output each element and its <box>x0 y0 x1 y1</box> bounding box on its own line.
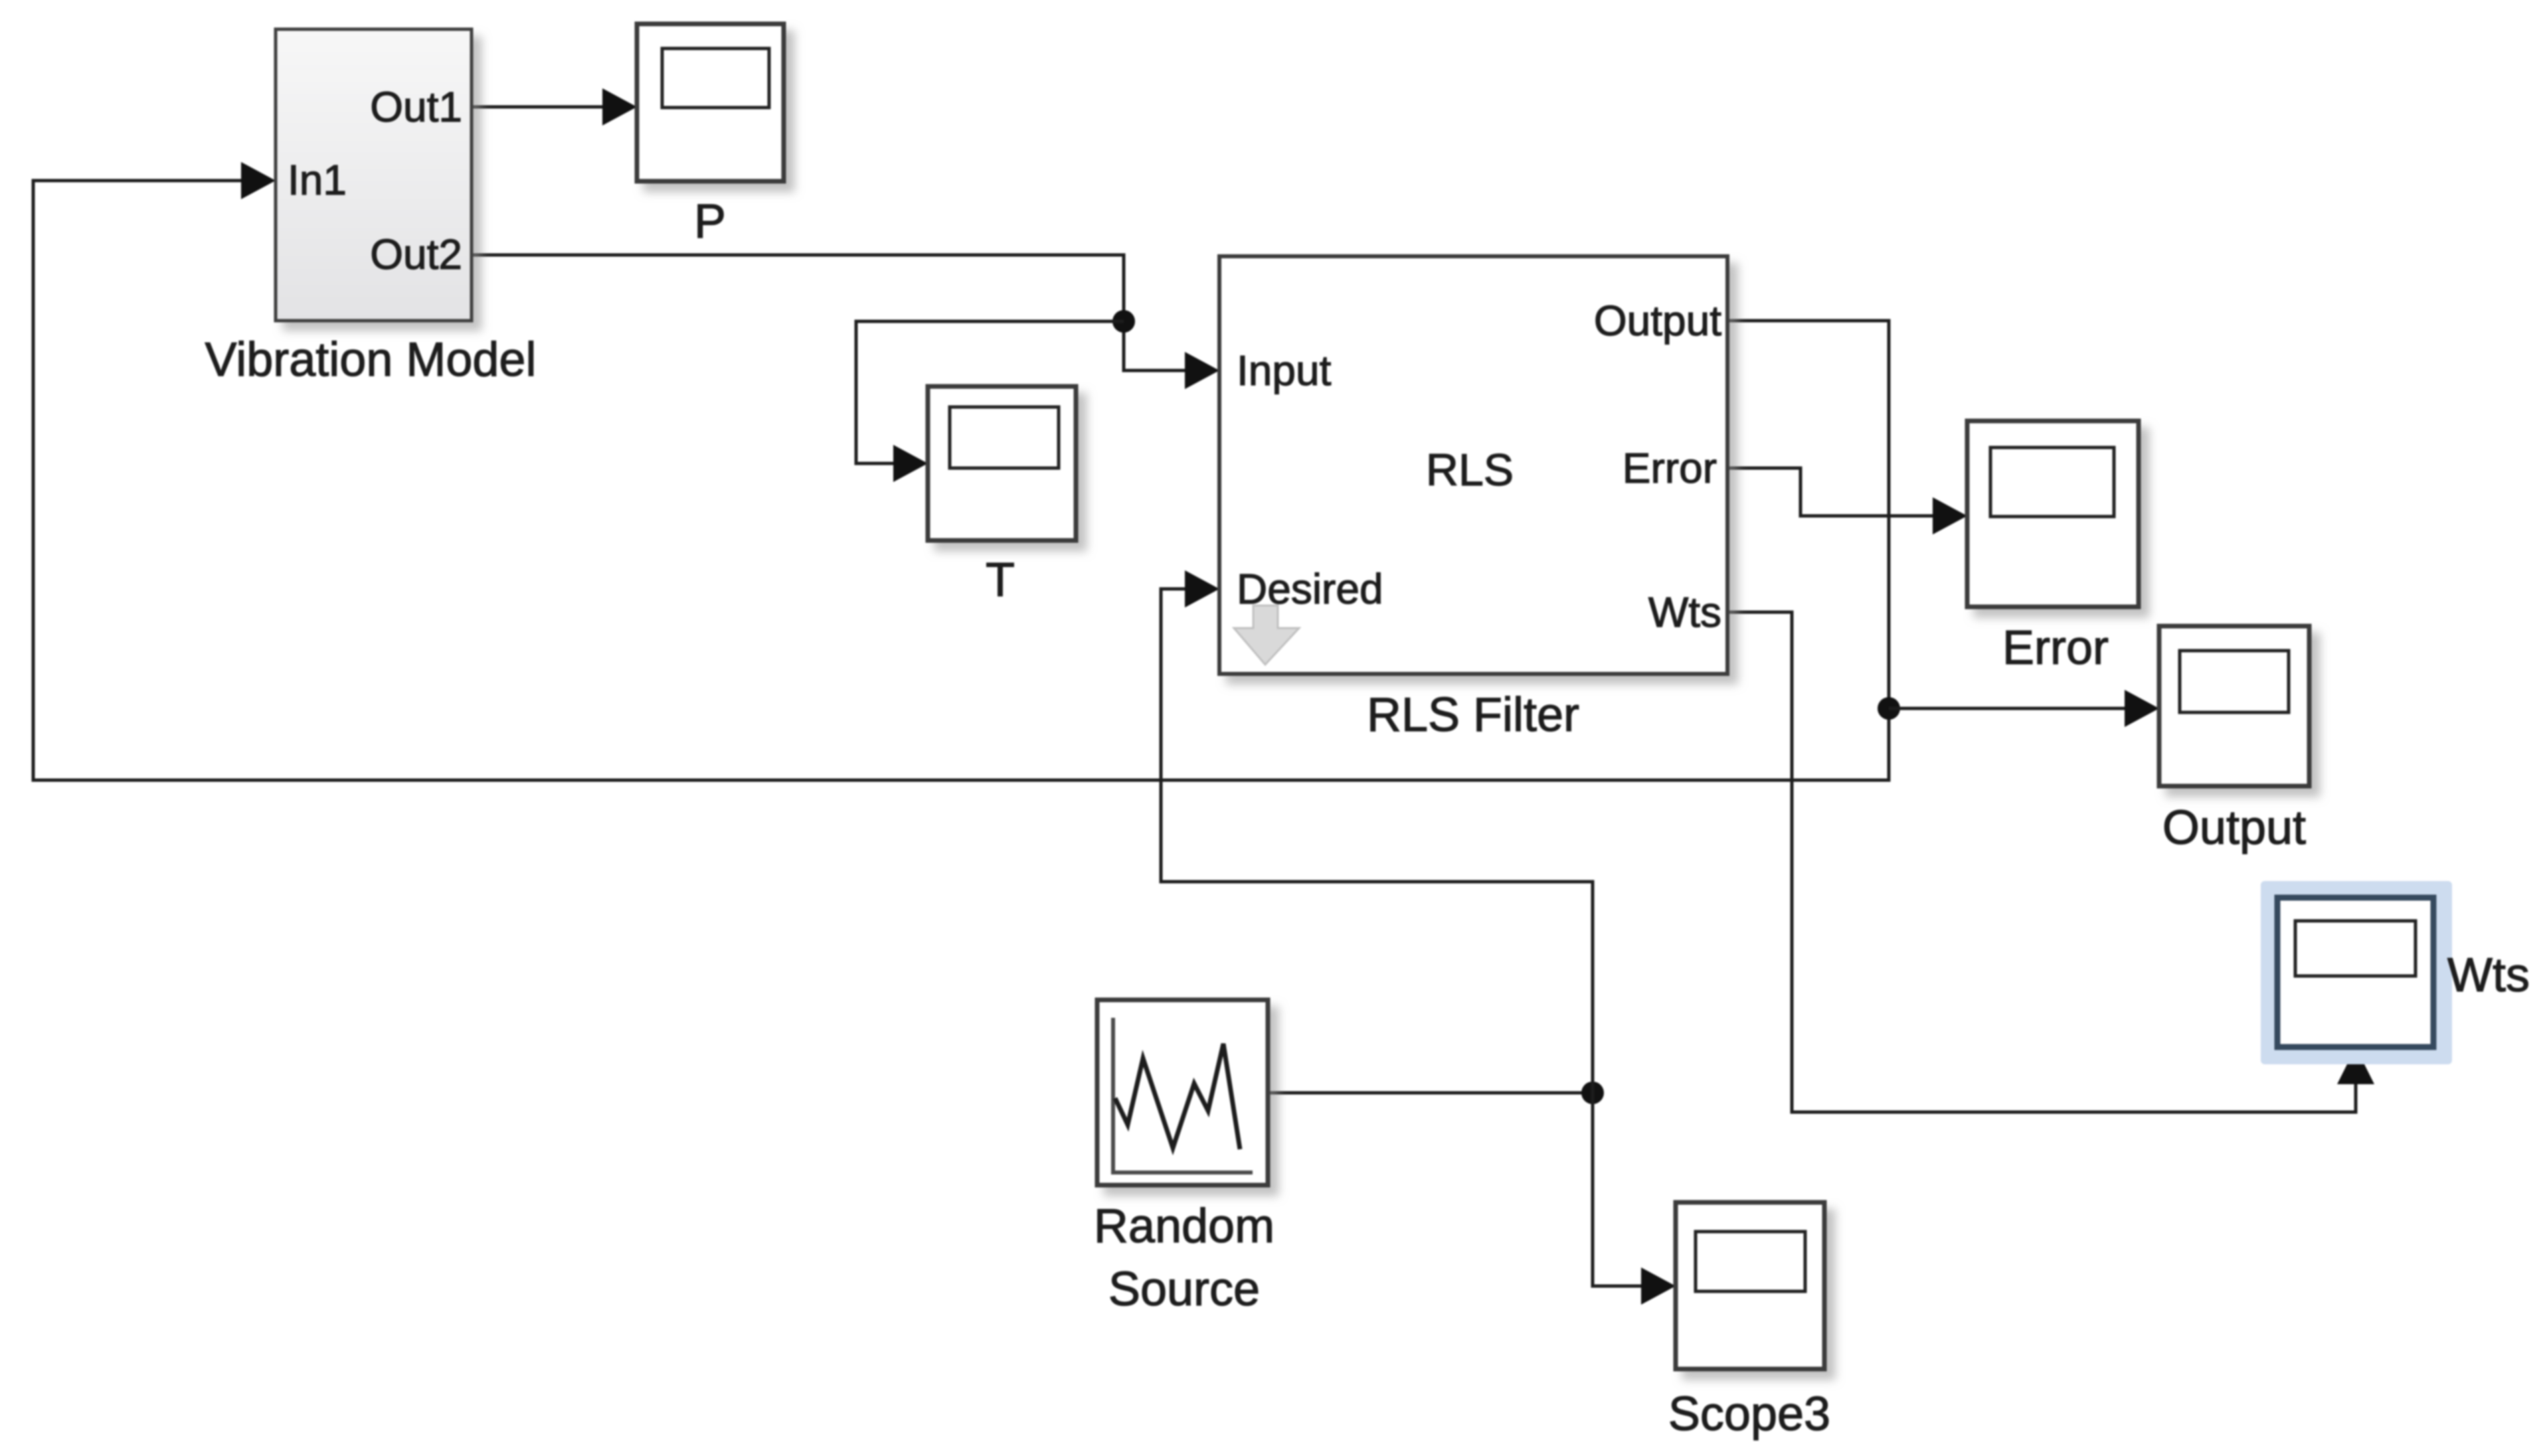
scope Scope3 <box>1676 1202 1824 1369</box>
arrowhead into Error scope <box>1933 497 1967 534</box>
svg-text:Random: Random <box>1094 1200 1274 1253</box>
svg-text:RLS Filter: RLS Filter <box>1367 688 1579 742</box>
svg-text:Source: Source <box>1108 1263 1260 1316</box>
arrowhead into Output scope <box>2125 690 2159 727</box>
icon axes <box>1113 1018 1253 1173</box>
wire Out1 to P scope <box>470 106 630 109</box>
wire branch to RLS Desired <box>1161 589 1593 1093</box>
svg-text:Error: Error <box>1623 444 1717 492</box>
svg-text:Wts: Wts <box>2447 949 2530 1002</box>
arrowhead into Wts scope (pointing up) <box>2337 1047 2374 1084</box>
svg-text:Error: Error <box>2002 621 2109 675</box>
svg-text:T: T <box>986 554 1015 607</box>
icon noise waveform <box>1115 1044 1240 1149</box>
gray update arrow icon <box>1234 606 1299 665</box>
wire branch to Output scope <box>1889 707 2152 710</box>
svg-text:Wts: Wts <box>1648 588 1721 636</box>
arrowhead into In1 <box>241 162 276 199</box>
arrowhead into T scope <box>893 445 928 482</box>
svg-text:Out2: Out2 <box>370 230 462 278</box>
scope Output <box>2159 626 2309 786</box>
scope P <box>637 24 784 181</box>
scope Error screen <box>1990 447 2114 517</box>
scope T screen <box>950 407 1059 468</box>
block Random Source <box>1097 1000 1268 1185</box>
scope T <box>928 386 1076 540</box>
svg-text:Vibration Model: Vibration Model <box>205 333 537 386</box>
arrowhead into Scope3 <box>1641 1267 1676 1305</box>
svg-text:P: P <box>694 195 726 248</box>
scope Error <box>1967 421 2139 607</box>
node junction on Random Source wire <box>1581 1082 1604 1104</box>
wire RLS Wts to Wts scope <box>1727 612 2356 1112</box>
arrowhead into P scope <box>602 88 637 125</box>
wire Random Source output <box>1268 1092 1593 1095</box>
scope P screen <box>662 48 769 108</box>
scope Wts (selected) <box>2261 881 2452 1064</box>
svg-text:RLS: RLS <box>1426 445 1514 495</box>
svg-text:Input: Input <box>1237 347 1332 394</box>
label Random Source <box>1094 1200 1274 1316</box>
svg-text:Output: Output <box>1594 297 1721 345</box>
scope Output screen <box>2180 651 2289 712</box>
wire Out2 to RLS Input <box>470 255 1213 370</box>
wire RLS Error to Error scope <box>1727 468 1961 516</box>
wire branch to T scope <box>856 321 1124 463</box>
node junction on Out2 wire <box>1112 310 1135 333</box>
wire branch to Scope3 <box>1593 1093 1669 1286</box>
node junction on Output feedback <box>1878 697 1900 720</box>
arrowhead into RLS Desired <box>1185 570 1219 607</box>
scope Wts screen <box>2295 921 2415 976</box>
svg-text:In1: In1 <box>288 156 347 204</box>
wire feedback Output to In1 <box>33 181 1889 780</box>
block Vibration Model <box>276 29 472 321</box>
scope Wts body <box>2277 898 2433 1047</box>
arrowhead into RLS Input <box>1185 352 1219 389</box>
svg-text:Out1: Out1 <box>370 83 462 131</box>
svg-text:Output: Output <box>2162 801 2306 854</box>
block RLS Filter U1 <box>1219 256 1727 674</box>
scope Scope3 screen <box>1696 1232 1805 1291</box>
svg-text:Scope3: Scope3 <box>1668 1388 1830 1441</box>
